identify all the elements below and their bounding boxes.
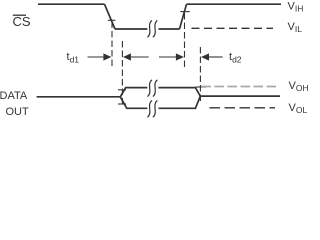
break mark on CS low line [148,20,158,37]
svg-text:td2: td2 [229,51,242,65]
tick on CS rising edge at VIH [180,11,190,13]
vertical dashed line from CS falling edge [111,22,113,67]
svg-text:VIL: VIL [288,21,303,34]
svg-text:DATA: DATA [0,90,28,102]
tick on DATA turn-on lower edge [118,103,126,105]
tick on CS falling edge at VIL [108,19,116,21]
DATA high-Z mid line [37,96,121,98]
svg-text:VOL: VOL [289,102,308,115]
CS waveform high segment right [187,3,282,5]
vertical dashed line at data disable [199,47,201,103]
svg-text:td1: td1 [67,51,80,65]
DATA upper branch after break to disable edge [159,88,201,97]
vertical dashed line at data enable [121,41,123,106]
VOL dashed reference line [210,107,276,109]
DATA bus turn-on lower edge [120,97,147,109]
td1 right arrow (points left at data line) [123,53,149,60]
svg-text:VIH: VIH [288,0,304,13]
tick on DATA disable edge at VOH [196,86,206,88]
vertical dashed line from CS rising edge [184,13,186,70]
CS rising edge [180,4,187,29]
svg-text:OUT: OUT [6,106,30,118]
VIL dashed reference line [192,27,274,29]
td1 left arrow (points right at CS edge line) [88,53,112,60]
tick on DATA turn-on upper edge [118,89,126,91]
break mark on DATA lower branch [148,100,158,117]
VOH dashed reference line (gray) [202,86,277,88]
DATA high-Z line after disable [200,95,280,97]
svg-text:CS: CS [13,14,31,29]
DATA lower branch after break to disable edge [159,96,201,108]
td2 left arrow (points right at CS rising edge line) [159,53,184,60]
CS low segment (with break gap) [115,28,147,30]
break mark on DATA upper branch [148,80,158,97]
CS falling edge [105,4,116,29]
DATA bus turn-on upper edge [120,88,147,97]
CS signal label [13,14,31,29]
svg-text:VOH: VOH [289,80,309,93]
td2 right arrow (points left at data disable line) [201,53,223,60]
CS waveform high segment left [38,3,105,5]
